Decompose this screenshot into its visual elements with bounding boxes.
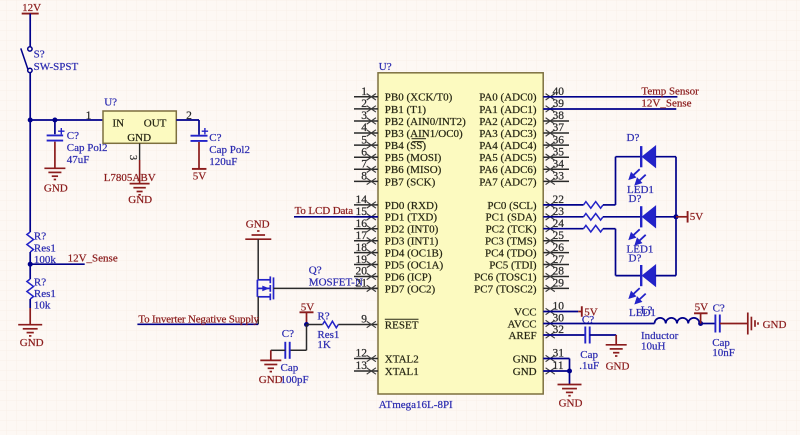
svg-text:GND: GND — [127, 132, 151, 144]
svg-text:C?: C? — [282, 328, 294, 340]
svg-text:PC0 (SCL): PC0 (SCL) — [487, 200, 537, 212]
transistor Q1 MOSFET-N — [257, 276, 273, 300]
wire GND pin 31 — [543, 358, 569, 360]
svg-text:PB3 (AIN1/OC0): PB3 (AIN1/OC0) — [385, 128, 463, 140]
wire — [569, 359, 571, 385]
power port 5V — [578, 311, 582, 313]
svg-text:18: 18 — [356, 242, 368, 254]
junction — [567, 369, 572, 374]
svg-text:16: 16 — [356, 218, 368, 230]
svg-text:PB2 (AIN0/INT2): PB2 (AIN0/INT2) — [385, 116, 466, 128]
svg-text:PD4 (OC1B): PD4 (OC1B) — [385, 248, 443, 260]
svg-text:PA1 (ADC1): PA1 (ADC1) — [479, 104, 537, 116]
svg-text:U?: U? — [104, 97, 117, 109]
svg-text:1K: 1K — [317, 339, 331, 351]
svg-text:GND: GND — [513, 353, 537, 365]
pin 38 PA2 (ADC2) — [543, 120, 569, 122]
pin 8 PB7 (SCK) — [354, 180, 378, 182]
regulator U1 L7805ABV body — [103, 111, 176, 143]
svg-text:Cap Pol2: Cap Pol2 — [209, 144, 250, 156]
wire — [656, 216, 676, 218]
svg-text:47uF: 47uF — [67, 154, 90, 166]
wire — [656, 275, 676, 277]
wire AVCC pin 30 — [543, 323, 654, 325]
junction — [674, 214, 679, 219]
capacitor C1 Cap Pol2 47uF — [47, 135, 64, 140]
ground — [18, 325, 42, 336]
svg-text:12V: 12V — [22, 2, 41, 14]
wire to RESET pin 9 — [338, 324, 378, 326]
svg-text:GND: GND — [559, 397, 583, 409]
pin 12 XTAL2 — [354, 358, 378, 360]
wire — [54, 120, 56, 134]
wire — [29, 73, 31, 120]
wire — [306, 325, 308, 351]
pin 36 PA4 (ADC4) — [543, 144, 569, 146]
svg-text:5V: 5V — [695, 302, 709, 314]
svg-text:9: 9 — [361, 314, 367, 326]
svg-text:PD1 (TXD): PD1 (TXD) — [385, 212, 438, 224]
junction node 12V_Sense — [28, 262, 33, 267]
svg-text:GND: GND — [128, 194, 152, 206]
wire led rail left lower — [615, 229, 617, 276]
svg-text:12V_Sense: 12V_Sense — [641, 98, 691, 110]
svg-text:10uH: 10uH — [641, 340, 666, 352]
svg-text:PB1 (T1): PB1 (T1) — [385, 104, 427, 116]
wire — [603, 204, 616, 206]
resistor R3 Res1 1K — [323, 321, 339, 328]
wire — [29, 120, 31, 232]
svg-text:14: 14 — [356, 194, 368, 206]
inductor L1 10uH — [655, 318, 700, 324]
svg-text:To Inverter Negative Supply: To Inverter Negative Supply — [138, 314, 259, 326]
capacitor C3 Cap 100pF — [285, 342, 289, 359]
svg-text:Q?: Q? — [309, 264, 322, 276]
resistor R5 led — [584, 214, 604, 221]
svg-text:33: 33 — [553, 171, 565, 183]
svg-text:PB7 (SCK): PB7 (SCK) — [385, 176, 436, 188]
svg-text:PA3 (ADC3): PA3 (ADC3) — [479, 128, 537, 140]
svg-text:38: 38 — [553, 110, 565, 122]
svg-text:XTAL2: XTAL2 — [385, 353, 419, 365]
pin 37 PA3 (ADC3) — [543, 132, 569, 134]
resistor R6 led — [584, 225, 604, 232]
svg-text:R?: R? — [317, 310, 329, 322]
svg-text:10k: 10k — [34, 300, 51, 312]
wire pin 22 — [543, 204, 583, 206]
pin 35 PA5 (ADC5) — [543, 156, 569, 158]
svg-text:D?: D? — [629, 193, 642, 205]
svg-text:3: 3 — [127, 155, 138, 160]
svg-text:PA7 (ADC7): PA7 (ADC7) — [479, 176, 537, 188]
svg-text:PC6 (TOSC1): PC6 (TOSC1) — [474, 271, 537, 283]
svg-text:25: 25 — [553, 230, 565, 242]
svg-text:PC5 (TDI): PC5 (TDI) — [489, 259, 537, 271]
svg-text:R?: R? — [34, 277, 46, 289]
svg-text:AREF: AREF — [508, 330, 536, 342]
svg-text:PC1 (SDA): PC1 (SDA) — [486, 212, 537, 224]
svg-text:RESET: RESET — [385, 319, 419, 331]
capacitor C2 Cap Pol2 120uF — [191, 136, 208, 141]
svg-text:XTAL1: XTAL1 — [385, 366, 419, 378]
svg-text:AVCC: AVCC — [507, 318, 536, 330]
svg-text:D?: D? — [627, 132, 640, 144]
svg-text:20: 20 — [356, 266, 368, 278]
underline AIN1 — [412, 138, 427, 140]
svg-text:5: 5 — [361, 134, 367, 146]
power port 5V — [192, 168, 207, 170]
svg-text:6: 6 — [361, 146, 367, 158]
svg-text:PC2 (TCK): PC2 (TCK) — [486, 224, 537, 236]
wire gate to pin 21 — [274, 287, 379, 289]
pin 34 PA6 (ADC6) — [543, 168, 569, 170]
resistor R1 Res1 100k — [27, 232, 34, 252]
svg-text:5V: 5V — [193, 171, 207, 183]
pin 27 PC5 (TDI) — [543, 264, 569, 266]
resistor R4 led — [584, 202, 604, 209]
svg-text:120uF: 120uF — [209, 156, 237, 168]
pin 28 PC6 (TOSC1) — [543, 275, 569, 277]
pin 21 PD7 (OC2) — [354, 287, 378, 289]
pin 2 PB1 (T1) — [354, 108, 378, 110]
pin 1 PB0 (XCK/T0) — [354, 96, 378, 98]
svg-text:GND: GND — [246, 219, 270, 231]
pin 15 PD1 (TXD) — [354, 216, 378, 218]
wire — [656, 156, 676, 158]
wire — [257, 239, 259, 280]
capacitor C5 Cap .1uF — [585, 327, 589, 344]
svg-text:27: 27 — [553, 254, 565, 266]
pin 33 PA7 (ADC7) — [543, 180, 569, 182]
ground — [558, 385, 582, 396]
svg-text:C?: C? — [713, 303, 725, 315]
svg-text:7: 7 — [361, 158, 367, 170]
wire To Inverter Negative Supply — [137, 323, 258, 325]
svg-text:Cap: Cap — [580, 349, 598, 361]
wire — [29, 252, 31, 279]
wire Temp Sensor — [543, 96, 677, 98]
wire — [590, 334, 617, 336]
ic U2 ATmega16L-8PI body — [378, 73, 543, 394]
svg-text:PB5 (MOSI): PB5 (MOSI) — [385, 152, 442, 164]
svg-text:2: 2 — [361, 98, 367, 110]
svg-text:GND: GND — [20, 337, 44, 349]
wire — [29, 299, 31, 308]
svg-text:PD3 (INT1): PD3 (INT1) — [385, 236, 439, 248]
svg-text:SW-SPST: SW-SPST — [34, 61, 79, 73]
ground — [130, 184, 150, 195]
wire — [198, 120, 200, 135]
svg-text:13: 13 — [356, 360, 368, 372]
wire led rail left upper — [615, 157, 617, 205]
svg-text:PD6 (ICP): PD6 (ICP) — [385, 271, 432, 283]
svg-text:C?: C? — [67, 130, 79, 142]
wire — [54, 142, 56, 168]
svg-text:PD7 (OC2): PD7 (OC2) — [385, 283, 436, 295]
junction — [28, 118, 33, 123]
svg-text:100pF: 100pF — [281, 374, 309, 386]
pin 26 PC4 (TDO) — [543, 252, 569, 254]
pin 19 PD5 (OC1A) — [354, 264, 378, 266]
diode D2 LED1 — [641, 206, 655, 227]
svg-text:PD0 (RXD): PD0 (RXD) — [385, 200, 438, 212]
svg-text:29: 29 — [553, 278, 565, 290]
pin 14 PD0 (RXD) — [354, 204, 378, 206]
svg-text:Cap Pol2: Cap Pol2 — [67, 142, 108, 154]
svg-text:GND: GND — [513, 366, 537, 378]
svg-text:PA0 (ADC0): PA0 (ADC0) — [479, 92, 537, 104]
svg-text:S?: S? — [34, 49, 45, 61]
svg-text:PD2 (INT0): PD2 (INT0) — [385, 224, 439, 236]
svg-text:PC4 (TDO): PC4 (TDO) — [485, 248, 537, 260]
svg-text:GND: GND — [44, 183, 68, 195]
ground — [44, 168, 65, 179]
svg-text:35: 35 — [553, 146, 565, 158]
svg-text:PA5 (ADC5): PA5 (ADC5) — [479, 152, 537, 164]
svg-text:PB6 (MISO): PB6 (MISO) — [385, 164, 442, 176]
svg-text:IN: IN — [113, 117, 125, 129]
wire — [700, 323, 716, 325]
svg-text:U?: U? — [379, 61, 392, 73]
wire — [307, 324, 323, 326]
wire — [198, 142, 200, 169]
svg-text:10nF: 10nF — [712, 347, 735, 359]
svg-text:12: 12 — [356, 348, 368, 360]
pin 13 XTAL1 — [354, 370, 378, 372]
svg-text:.1uF: .1uF — [579, 360, 599, 372]
svg-text:36: 36 — [553, 134, 565, 146]
wire — [603, 216, 641, 218]
wire — [29, 14, 31, 47]
wire led rail right — [675, 157, 677, 276]
svg-text:8: 8 — [361, 171, 367, 183]
pin 5 PB4 (SS) — [354, 144, 378, 146]
svg-text:37: 37 — [553, 122, 565, 134]
svg-text:PA4 (ADC4): PA4 (ADC4) — [479, 140, 537, 152]
svg-text:PD5 (OC1A): PD5 (OC1A) — [385, 259, 444, 271]
svg-text:OUT: OUT — [144, 117, 167, 129]
wire VCC pin 10 — [543, 311, 578, 313]
wire — [720, 323, 748, 325]
svg-text:GND: GND — [606, 361, 630, 373]
wire 12V_Sense — [543, 108, 676, 110]
svg-text:R?: R? — [34, 231, 46, 243]
svg-text:5V: 5V — [690, 211, 704, 223]
wire AREF pin 32 — [543, 334, 585, 336]
pin 3 PB2 (AIN0/INT2) — [354, 120, 378, 122]
svg-text:ATmega16L-8PI: ATmega16L-8PI — [379, 399, 453, 411]
resistor R2 Res1 10k — [27, 279, 34, 299]
diode D1 LED1 — [641, 146, 655, 167]
svg-text:4: 4 — [361, 122, 367, 134]
wire — [30, 119, 103, 121]
svg-text:Temp Sensor: Temp Sensor — [641, 85, 699, 97]
wire To LCD Data pin 15 — [294, 216, 378, 218]
svg-text:PA6 (ADC6): PA6 (ADC6) — [479, 164, 537, 176]
svg-text:GND: GND — [763, 319, 787, 331]
pin 20 PD6 (ICP) — [354, 275, 378, 277]
wire source — [257, 297, 259, 325]
svg-text:C?: C? — [582, 314, 594, 326]
ground — [606, 345, 627, 356]
pin 29 PC7 (TOSC2) — [543, 287, 569, 289]
capacitor C4 Cap 10nF — [715, 315, 719, 333]
wire — [176, 119, 199, 121]
pin 18 PD4 (OC1B) — [354, 252, 378, 254]
svg-text:D?: D? — [629, 252, 642, 264]
wire — [30, 263, 84, 265]
svg-text:L7805ABV: L7805ABV — [104, 172, 156, 184]
wire GND pin 11 — [543, 370, 569, 372]
svg-text:21: 21 — [356, 278, 368, 290]
wire — [616, 156, 642, 158]
switch S? SW-SPST — [21, 47, 32, 73]
svg-text:PB0 (XCK/T0): PB0 (XCK/T0) — [385, 92, 453, 104]
svg-text:19: 19 — [356, 254, 368, 266]
wire pin 24 — [543, 228, 583, 230]
ground — [748, 313, 758, 335]
wire — [603, 228, 616, 230]
svg-text:1: 1 — [361, 86, 367, 98]
svg-text:PC7 (TOSC2): PC7 (TOSC2) — [474, 283, 537, 295]
power port 5V — [700, 313, 702, 323]
svg-text:VCC: VCC — [514, 306, 537, 318]
svg-text:To LCD Data: To LCD Data — [295, 205, 354, 217]
svg-text:3: 3 — [361, 110, 367, 122]
svg-text:26: 26 — [553, 242, 565, 254]
junction — [698, 321, 703, 326]
pin 25 PC3 (TMS) — [543, 240, 569, 242]
svg-text:PA2 (ADC2): PA2 (ADC2) — [479, 116, 537, 128]
diode D3 LED1 — [641, 265, 655, 286]
svg-text:17: 17 — [356, 230, 368, 242]
wire — [271, 349, 286, 351]
svg-text:GND: GND — [259, 374, 283, 386]
junction — [304, 322, 309, 327]
pin 16 PD2 (INT0) — [354, 228, 378, 230]
svg-text:1: 1 — [86, 110, 92, 122]
wire — [616, 275, 642, 277]
junction — [52, 118, 57, 123]
svg-text:34: 34 — [553, 158, 565, 170]
overline SS — [412, 141, 423, 143]
svg-text:Res1: Res1 — [34, 243, 56, 255]
power port 5V — [676, 216, 688, 218]
pin 7 PB6 (MISO) — [354, 168, 378, 170]
svg-text:12V_Sense: 12V_Sense — [68, 252, 118, 264]
svg-text:L?: L? — [641, 305, 653, 317]
pin 6 PB5 (MOSI) — [354, 156, 378, 158]
wire pin 23 — [543, 216, 583, 218]
svg-text:Res1: Res1 — [34, 288, 56, 300]
svg-text:PC3 (TMS): PC3 (TMS) — [485, 236, 537, 248]
pin 17 PD3 (INT1) — [354, 240, 378, 242]
svg-text:28: 28 — [553, 266, 565, 278]
pin 4 PB3 (AIN1/OC0) — [354, 132, 378, 134]
ground — [260, 360, 281, 371]
svg-text:C?: C? — [209, 132, 221, 144]
svg-text:Cap: Cap — [281, 362, 299, 374]
